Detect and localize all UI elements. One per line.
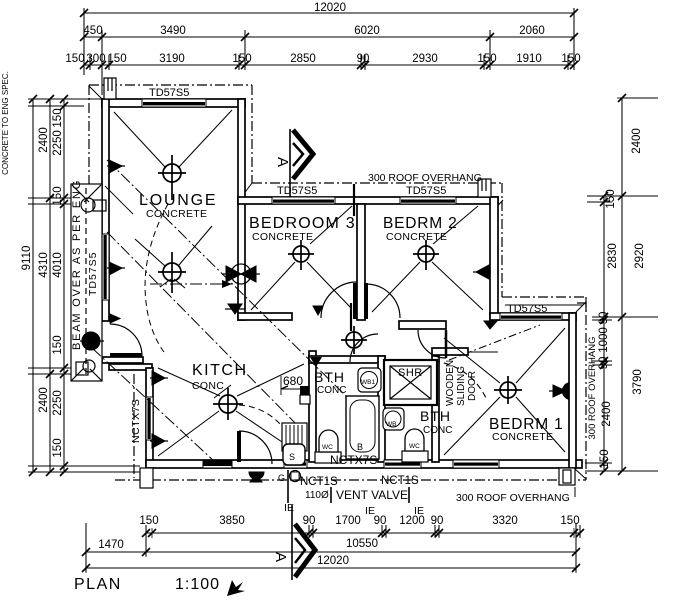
svg-text:A: A <box>274 157 291 167</box>
drain line IE <box>287 470 289 503</box>
wall light bed1 right bowtie <box>549 383 568 399</box>
svg-text:6020: 6020 <box>354 25 380 37</box>
overhang top bedrooms <box>252 182 502 184</box>
beam strip outline <box>71 184 102 381</box>
window kitchen left vertical <box>146 397 153 440</box>
chimney bed2 top <box>478 179 491 197</box>
svg-text:90: 90 <box>303 515 316 527</box>
svg-text:WOODEN: WOODEN <box>445 360 456 406</box>
svg-text:2400: 2400 <box>631 128 643 154</box>
svg-text:TD57S5: TD57S5 <box>87 251 99 296</box>
svg-text:CONCRETE: CONCRETE <box>492 431 553 443</box>
vent pipe bed3 <box>353 184 355 216</box>
light passage <box>341 326 367 354</box>
svg-text:1:100: 1:100 <box>175 576 220 593</box>
svg-text:2250: 2250 <box>52 130 64 156</box>
bracket vent valve right <box>408 487 410 503</box>
kitchen ceiling V <box>158 368 220 396</box>
svg-text:2400: 2400 <box>601 401 613 427</box>
door bed1 hall leaf <box>445 330 448 358</box>
svg-text:A: A <box>272 552 289 562</box>
svg-text:150: 150 <box>560 515 579 527</box>
wall light bed2 bottom <box>484 321 497 329</box>
svg-text:4010: 4010 <box>52 252 64 278</box>
svg-text:WB1: WB1 <box>361 379 375 386</box>
wall kitchen-bth divider <box>309 351 316 462</box>
toilet WC bth2 <box>402 429 428 462</box>
svg-text:9110: 9110 <box>21 246 33 271</box>
wall bed2 bottom <box>399 321 446 329</box>
overhang left of kitchen <box>133 374 135 478</box>
lounge X lower arms <box>135 239 165 266</box>
light bed3 <box>288 240 314 270</box>
svg-text:CONC: CONC <box>423 425 452 436</box>
svg-text:300: 300 <box>86 53 105 65</box>
wall lounge right / bed3 left <box>238 99 245 320</box>
svg-text:KITCH: KITCH <box>192 362 248 379</box>
svg-text:BTH: BTH <box>314 369 345 385</box>
wall bth block top <box>309 356 385 363</box>
svg-text:SHR: SHR <box>398 367 423 379</box>
svg-text:3490: 3490 <box>160 25 186 37</box>
hip corner top-left <box>89 86 102 99</box>
light lounge 1 <box>158 155 186 200</box>
wall light bth top <box>310 357 322 367</box>
svg-text:90: 90 <box>431 515 444 527</box>
door bed1 hall swing <box>418 330 446 358</box>
hip diagonal bedrm1 roof <box>449 325 540 360</box>
window bed2 top <box>400 197 456 204</box>
lounge big dashed arc <box>145 204 168 352</box>
hip corner bottom-right <box>575 469 586 479</box>
svg-text:300 ROOF OVERHANG: 300 ROOF OVERHANG <box>456 492 570 504</box>
svg-text:2400: 2400 <box>38 387 50 413</box>
svg-text:NCT1S: NCT1S <box>381 475 419 487</box>
svg-text:3850: 3850 <box>219 515 245 527</box>
overhang step right of lounge <box>251 85 253 183</box>
svg-text:680: 680 <box>283 374 303 388</box>
window bottom kitchen sink <box>284 460 307 468</box>
svg-text:150: 150 <box>52 186 64 205</box>
section arrow A top <box>293 130 313 179</box>
window bottom bed1 <box>453 460 499 468</box>
svg-text:CONCRETE: CONCRETE <box>252 231 313 243</box>
svg-text:BEAM OVER AS PER ENG: BEAM OVER AS PER ENG <box>71 179 83 350</box>
wall bed1 right <box>569 313 576 468</box>
svg-text:TD57S5: TD57S5 <box>406 185 446 197</box>
svg-text:DOOR: DOOR <box>467 371 478 401</box>
svg-text:90: 90 <box>598 312 610 325</box>
svg-text:IE: IE <box>365 505 375 517</box>
svg-text:IE: IE <box>414 505 424 517</box>
wall light lounge left top <box>107 160 125 173</box>
svg-text:CONCRETE TO ENG SPEC.: CONCRETE TO ENG SPEC. <box>1 71 10 175</box>
sliding door dashed swing bed1 <box>424 360 486 398</box>
svg-text:TD57S5: TD57S5 <box>277 185 317 197</box>
svg-text:BEDRM 2: BEDRM 2 <box>383 215 458 232</box>
light kitchen <box>213 388 243 420</box>
gully G <box>290 471 301 482</box>
svg-text:3320: 3320 <box>492 515 518 527</box>
svg-text:NCTX7S: NCTX7S <box>330 453 377 467</box>
svg-text:CONCRETE: CONCRETE <box>386 231 447 243</box>
svg-text:2920: 2920 <box>634 243 646 269</box>
arrowhead corridor leader <box>222 280 232 288</box>
section line A top <box>289 129 291 197</box>
wall shr-bed1 divider <box>432 356 439 462</box>
basin WB1 <box>358 368 381 392</box>
svg-text:SLIDING: SLIDING <box>456 366 467 406</box>
pier bottom-right <box>559 468 575 485</box>
wall lounge top <box>102 99 245 107</box>
door bed2 swing <box>366 284 400 318</box>
door bed3 leaf <box>353 283 357 319</box>
wall lounge left <box>102 99 109 321</box>
wall bed2 right <box>490 197 498 320</box>
svg-text:300 ROOF OVERHANG: 300 ROOF OVERHANG <box>587 337 598 440</box>
svg-text:150: 150 <box>232 53 251 65</box>
svg-text:WC: WC <box>409 443 420 450</box>
svg-text:B: B <box>357 442 363 452</box>
wall step lounge to kitchen <box>102 357 143 363</box>
light lounge 2 <box>158 252 186 293</box>
sliding door track line <box>468 351 498 353</box>
bed3 ceiling V <box>251 262 295 310</box>
door kitchen exterior swing <box>239 431 272 464</box>
svg-text:2850: 2850 <box>290 53 316 65</box>
wall bth1-shr divider <box>378 356 385 462</box>
door kitchen dashed swing <box>239 405 296 460</box>
svg-text:VENT VALVE: VENT VALVE <box>336 488 408 502</box>
wall light bed3 door <box>313 306 323 315</box>
overhang top lounge <box>89 84 252 86</box>
svg-text:90: 90 <box>357 53 370 65</box>
svg-text:PLAN: PLAN <box>74 576 122 593</box>
svg-text:CONC: CONC <box>192 380 224 392</box>
overhang left <box>88 85 90 186</box>
overhang right <box>585 297 587 480</box>
lounge X upper <box>114 112 166 168</box>
svg-text:BEDROOM 3: BEDROOM 3 <box>249 215 356 232</box>
wall light lounge-bed3 bowtie <box>222 264 260 284</box>
dim 680 <box>281 376 309 395</box>
basin WB bth2 <box>383 408 404 430</box>
window bottom kitchen-left <box>203 460 232 468</box>
svg-text:150: 150 <box>599 449 611 468</box>
wall bed3 bed2 top <box>238 197 498 204</box>
bracket vent valve left <box>330 487 332 503</box>
svg-text:2400: 2400 <box>38 127 50 153</box>
door lounge entrance swing <box>110 324 142 356</box>
window strip left vertical <box>102 234 109 300</box>
svg-text:LOUNGE: LOUNGE <box>139 192 217 209</box>
hip corner bedrm1 inner <box>576 302 586 312</box>
svg-text:NCT1S: NCT1S <box>300 476 338 488</box>
overhang bottom <box>115 479 586 481</box>
wall light kitchen upper <box>150 371 168 385</box>
overhang corner bracket bed1 <box>577 303 586 312</box>
window bed1 top <box>500 313 562 320</box>
svg-text:2060: 2060 <box>519 25 545 37</box>
door lounge entrance leaf <box>110 353 142 357</box>
dim line row2 <box>84 36 574 38</box>
svg-text:3190: 3190 <box>159 53 185 65</box>
window lounge top <box>142 99 206 107</box>
svg-text:TD57S5: TD57S5 <box>149 87 189 99</box>
svg-text:S: S <box>289 452 295 462</box>
svg-text:450: 450 <box>83 25 102 37</box>
wall light corridor <box>225 304 245 314</box>
window bottom bth2 <box>384 460 421 468</box>
svg-text:300 ROOF OVERHANG: 300 ROOF OVERHANG <box>368 172 482 184</box>
svg-text:1700: 1700 <box>335 515 361 527</box>
wall light strip lower <box>80 332 104 350</box>
svg-text:150: 150 <box>52 438 64 457</box>
svg-text:150: 150 <box>561 53 580 65</box>
svg-text:150: 150 <box>605 189 617 208</box>
svg-text:WC: WC <box>322 444 333 451</box>
bath <box>346 396 379 459</box>
north/cursor arrow <box>227 580 245 596</box>
hip corner lounge step <box>243 183 252 195</box>
door jamb block bth1 <box>300 386 309 400</box>
svg-text:90: 90 <box>374 515 387 527</box>
wall light bed2 right <box>473 265 491 279</box>
bed1 ceiling X <box>444 338 500 383</box>
svg-text:CONCRETE: CONCRETE <box>146 208 207 220</box>
light bed2 <box>413 240 439 270</box>
beam strip dashed centerline <box>85 188 87 377</box>
wall sliding door jamb <box>432 348 468 355</box>
svg-text:90: 90 <box>598 357 610 370</box>
svg-text:2250: 2250 <box>52 390 64 416</box>
svg-text:150: 150 <box>65 53 84 65</box>
vent pipe corridor <box>350 303 352 331</box>
overhang right of bedrm2 <box>501 183 503 297</box>
shower SHR box <box>384 360 437 405</box>
wall light kitchen door <box>249 472 264 482</box>
wall light strip window <box>107 262 125 275</box>
wall bottom full <box>146 460 582 468</box>
dim line row3 <box>84 64 574 66</box>
section arrow A bottom <box>295 524 315 577</box>
svg-text:10550: 10550 <box>346 538 378 550</box>
svg-text:150: 150 <box>477 53 496 65</box>
wall light lounge door top <box>110 314 120 323</box>
svg-text:4310: 4310 <box>38 252 50 278</box>
svg-text:12020: 12020 <box>317 555 349 567</box>
svg-text:1000: 1000 <box>598 327 610 353</box>
svg-text:1910: 1910 <box>516 53 542 65</box>
svg-text:150: 150 <box>52 335 64 354</box>
svg-text:3790: 3790 <box>632 369 644 395</box>
dim line 12020 top <box>84 12 574 14</box>
svg-text:110Ø: 110Ø <box>305 490 329 501</box>
svg-text:2830: 2830 <box>607 243 619 269</box>
door kitchen exterior leaf <box>237 431 241 462</box>
svg-text:1470: 1470 <box>98 539 124 551</box>
section line A bottom <box>291 505 293 580</box>
svg-text:12020: 12020 <box>314 2 346 14</box>
extension lines <box>83 8 85 75</box>
wall light kitchen lower <box>150 434 168 448</box>
wall bed1 top <box>490 313 576 320</box>
svg-text:BTH: BTH <box>420 408 451 424</box>
window bed3 top <box>272 197 335 204</box>
bed2 ceiling V <box>372 262 420 312</box>
light bed1 <box>494 376 522 404</box>
door bed2 leaf <box>364 283 368 319</box>
svg-text:WB: WB <box>386 421 396 428</box>
svg-text:2930: 2930 <box>412 53 438 65</box>
wall bed3/bed2 partition <box>357 204 365 320</box>
wall bed3 bottom <box>238 313 292 320</box>
chimney lounge top-left <box>104 78 116 99</box>
svg-text:150: 150 <box>107 53 126 65</box>
svg-text:150: 150 <box>139 515 158 527</box>
toilet WC bth1 <box>315 430 341 463</box>
bed1 top edge line <box>505 304 583 306</box>
overhang top bedrm1 <box>502 296 586 298</box>
hip corner bedrm2 <box>490 200 503 214</box>
door bed3 swing <box>321 282 357 318</box>
svg-text:150: 150 <box>52 108 64 127</box>
wall kitchen left <box>146 368 153 468</box>
svg-text:CONC: CONC <box>317 385 346 396</box>
pier bottom-left <box>140 468 153 488</box>
door bth1 swing <box>350 334 378 362</box>
svg-text:G: G <box>278 473 285 483</box>
sink unit S <box>282 423 307 465</box>
svg-text:NCTX7S: NCTX7S <box>130 399 142 443</box>
